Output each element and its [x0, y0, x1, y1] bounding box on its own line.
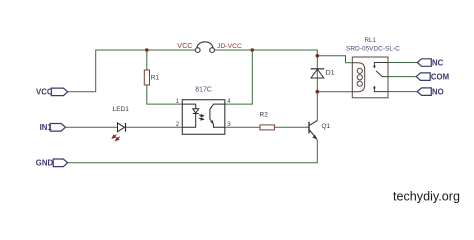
relay RL1 box [346, 37, 400, 98]
wire to relay coil bottom pin [317, 91, 352, 93]
port COM [416, 72, 449, 81]
wire R1 bottom to opto pin1 [147, 85, 183, 104]
relay switch blade and COM [376, 71, 388, 77]
junction dot at D1 bottom [316, 90, 320, 94]
opto emitter arrow [210, 120, 213, 124]
wire opto pin4 riser to rail [225, 50, 253, 104]
wire relay COM out [388, 76, 416, 78]
svg-text:NO: NO [432, 87, 444, 96]
junction dot at D1 top [316, 54, 320, 58]
port NO [417, 87, 443, 96]
relay coil [352, 63, 364, 92]
port GND [36, 159, 68, 168]
wire IN1 to LED1 [65, 126, 117, 128]
opto internal LED [182, 104, 198, 127]
LED LED1 [112, 106, 129, 141]
LED1 emission arrows [112, 135, 120, 141]
relay switch NC contact [374, 63, 388, 67]
svg-text:GND: GND [36, 159, 54, 168]
wire R1 top [146, 50, 148, 70]
wire R2 to Q1 base [275, 126, 310, 128]
svg-text:LED1: LED1 [113, 106, 130, 113]
junction dot at R1 top [145, 48, 149, 52]
wire VCC port to top rail [68, 50, 196, 92]
transistor Q1 [309, 121, 317, 139]
svg-text:VCC: VCC [36, 88, 53, 97]
svg-text:JD-VCC: JD-VCC [217, 43, 242, 50]
diode D1 [311, 69, 335, 78]
wire Q1 collector [316, 92, 318, 121]
svg-text:Q1: Q1 [322, 123, 331, 130]
relay switch NO contact [374, 88, 388, 92]
opto phototransistor [210, 104, 225, 127]
svg-text:techydiy.org: techydiy.org [393, 189, 460, 203]
relay switch NC arrowhead [373, 66, 376, 69]
wire JD-VCC rail to relay coil top pin [317, 56, 352, 63]
svg-text:817C: 817C [195, 87, 211, 94]
relay switch NO arrowhead [373, 86, 376, 89]
optocoupler U1 box [182, 87, 225, 135]
svg-text:IN1: IN1 [40, 123, 53, 132]
svg-text:NC: NC [432, 58, 444, 67]
wire Q1 emitter to GND rail [68, 139, 318, 163]
wire top rail right of jumper [215, 50, 318, 56]
wire LED1 to opto pin2 [126, 126, 183, 128]
svg-text:R1: R1 [151, 75, 160, 82]
svg-text:SRD-05VDC-SL-C: SRD-05VDC-SL-C [346, 46, 400, 53]
jumper between VCC and JD-VCC [195, 42, 214, 53]
wire D1 branch vertical [316, 56, 318, 92]
resistor R1 [144, 70, 159, 85]
port IN1 [40, 123, 66, 132]
wire opto pin3 to R2 [225, 126, 260, 128]
svg-text:VCC: VCC [177, 41, 192, 50]
wire relay NC out [388, 62, 417, 64]
resistor R2 [260, 112, 275, 130]
svg-text:R2: R2 [260, 112, 269, 119]
port NC [417, 58, 443, 67]
svg-text:D1: D1 [326, 70, 335, 77]
wire relay NO out [388, 91, 417, 93]
junction dot at pin4 riser [251, 48, 255, 52]
port VCC [36, 88, 68, 97]
svg-text:RL1: RL1 [365, 37, 377, 44]
Q1 emitter arrow [312, 135, 317, 140]
opto LED coupling arrows [199, 115, 204, 120]
svg-text:COM: COM [431, 72, 449, 81]
